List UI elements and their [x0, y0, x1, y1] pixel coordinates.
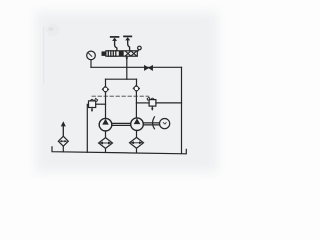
motor mark [163, 122, 166, 124]
wire manifold header [106, 78, 137, 80]
wire RV1 drain to tank [87, 104, 88, 152]
wire right branch upper [136, 79, 138, 85]
valve V1 crossed arrows [125, 51, 136, 56]
wire pump2 to filter2 [136, 131, 138, 138]
coupling [153, 117, 155, 129]
wire gauge stem [90, 60, 92, 68]
valve V1 internal bars [108, 51, 116, 56]
outlet port A bar [111, 36, 119, 38]
wire RV1 to left riser [96, 103, 106, 105]
tank [52, 147, 186, 154]
pump P1 [99, 118, 112, 131]
shaft between pumps [112, 123, 131, 125]
valve P spring mark [126, 57, 129, 60]
wire right drain vertical [181, 67, 183, 153]
filter F2 [130, 137, 144, 148]
pump P1 triangle [102, 119, 109, 125]
pump P2 [131, 118, 144, 131]
smudge [46, 24, 60, 36]
valve V1 pilot knob circle [138, 46, 142, 50]
directional valve V1 body [106, 51, 137, 56]
outlet port B bar [124, 35, 131, 37]
pump P2 triangle [134, 118, 141, 124]
wire pump1 to filter1 [105, 131, 107, 138]
filter F2 inner arrows [132, 142, 141, 144]
breather inner arrows [61, 140, 66, 142]
check valve CV2 [133, 85, 140, 92]
relief valve RV2 body [149, 100, 156, 107]
pressure gauge G1 [87, 51, 96, 60]
wire port A to valve [115, 41, 117, 51]
outlet port A arrow [112, 38, 117, 41]
wire valve P line [126, 56, 128, 79]
wire left riser [105, 93, 107, 119]
motor M1 [160, 119, 170, 129]
wire left branch upper [105, 79, 107, 86]
wire breather to tank [62, 146, 64, 152]
RV2 drain arrow [151, 106, 153, 109]
relief valve RV1 body [89, 101, 96, 108]
valve V1 dark cell [119, 51, 124, 56]
wire vent line [91, 66, 182, 68]
breather arrow [61, 121, 66, 126]
wire knob to valve [137, 50, 140, 51]
gauge needle [89, 53, 92, 56]
wire filter2 to tank [136, 148, 138, 153]
wire filter1 to tank [105, 148, 107, 152]
shut-off valve V2 [144, 65, 148, 70]
breather stem [62, 126, 64, 136]
RV2 spring [151, 98, 154, 100]
shaft pump2 to motor [143, 123, 159, 125]
breather B1 [58, 136, 68, 146]
filter F1 [99, 138, 113, 149]
outlet port B arrow [125, 37, 130, 40]
wire right riser [135, 92, 137, 118]
dashed level line [92, 95, 149, 97]
RV1 drain arrow [91, 108, 93, 110]
wire port B to valve [128, 40, 130, 51]
faint scan edge [43, 26, 45, 84]
wire RV2 to drain vertical [156, 102, 182, 104]
RV1 spring [90, 99, 94, 101]
valve V1 left cap [102, 51, 107, 56]
check valve CV1 [102, 86, 109, 93]
wire right riser to RV2 [136, 102, 149, 104]
filter F1 inner arrows [101, 142, 110, 144]
